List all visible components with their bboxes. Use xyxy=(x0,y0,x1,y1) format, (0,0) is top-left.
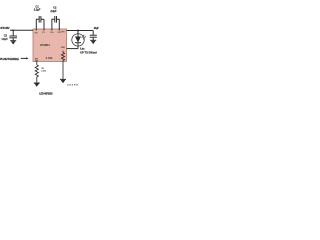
svg-text:PULSE TO ENABLE: PULSE TO ENABLE xyxy=(0,57,19,61)
svg-text:ILED: ILED xyxy=(80,48,85,51)
svg-text:LTC3214: LTC3214 xyxy=(40,43,50,47)
svg-text:UP TO 500mA: UP TO 500mA xyxy=(80,51,97,55)
svg-text:CPO: CPO xyxy=(60,31,65,33)
svg-text:10μF: 10μF xyxy=(1,37,8,41)
svg-text:2.2μF: 2.2μF xyxy=(50,9,57,13)
svg-text:C2+: C2+ xyxy=(50,32,54,34)
svg-text:0.15Ω: 0.15Ω xyxy=(46,58,53,60)
svg-text:2.2μF: 2.2μF xyxy=(34,8,41,12)
svg-text:C2: C2 xyxy=(53,5,57,9)
svg-text:LED 40F2015: LED 40F2015 xyxy=(39,92,53,96)
svg-text:2.61k: 2.61k xyxy=(41,71,47,73)
svg-text:10μF: 10μF xyxy=(94,26,100,30)
svg-text:C1−: C1− xyxy=(42,32,46,34)
svg-text:C3: C3 xyxy=(4,33,8,37)
svg-text:SET: SET xyxy=(35,61,38,63)
svg-text:3V TO 4.5V: 3V TO 4.5V xyxy=(0,27,10,30)
svg-text:VIN: VIN xyxy=(35,32,38,34)
svg-text:3214 F01: 3214 F01 xyxy=(67,83,79,86)
svg-text:LED: LED xyxy=(61,47,66,49)
